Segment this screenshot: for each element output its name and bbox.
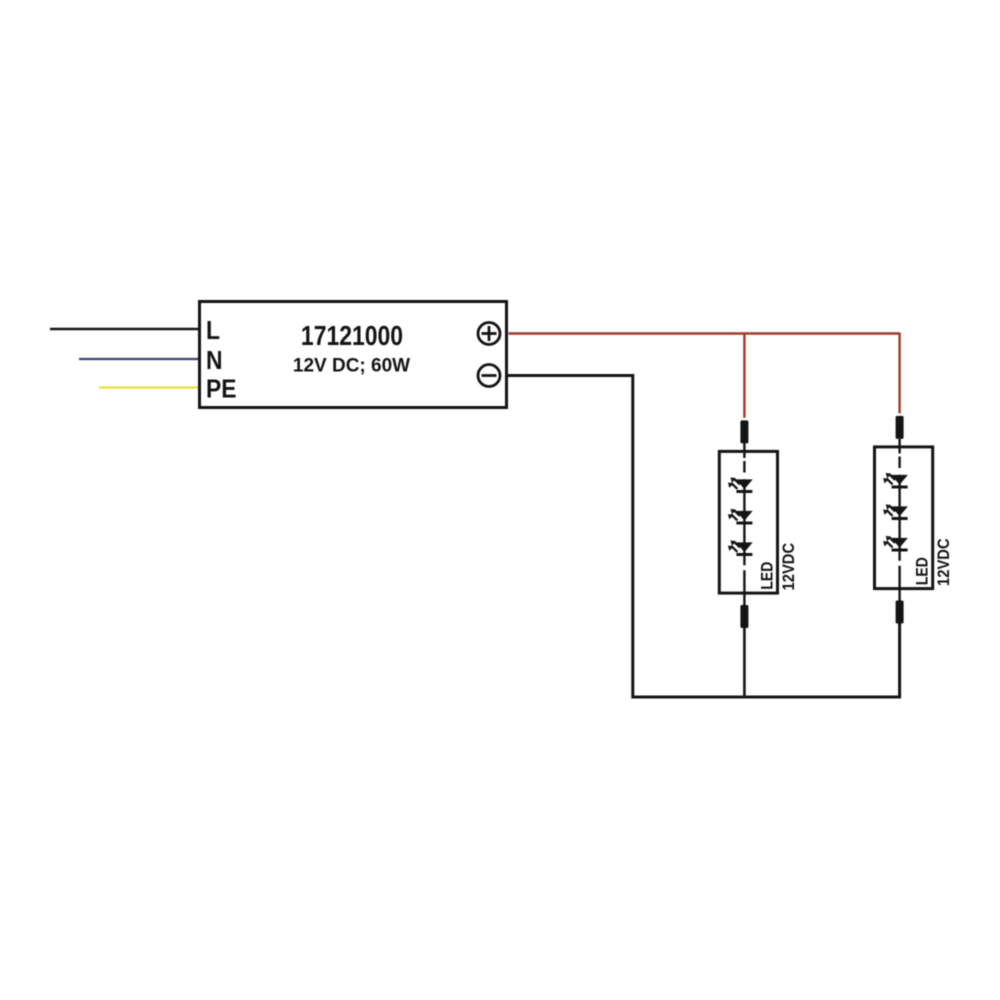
M1 diode D1	[728, 477, 753, 491]
wire - negative rail (box to bottom to module M2)	[508, 376, 900, 699]
value label 12V DC; 60W	[293, 356, 410, 377]
wire L input (black)	[50, 328, 199, 331]
wire N input (blue)	[79, 358, 199, 360]
M2 diode D5	[883, 504, 908, 518]
M1 diode D3	[728, 540, 753, 554]
M1 body rect	[719, 451, 777, 593]
wire red branch down to module M2	[898, 333, 900, 414]
svg-text:12V DC; 60W: 12V DC; 60W	[293, 356, 410, 377]
wire module M1 bottom return	[743, 626, 746, 699]
M2 internal wire with dashes	[898, 439, 900, 601]
terminal + (plus output)	[478, 323, 500, 345]
wire red branch down to module M1	[743, 334, 745, 418]
LED module M2	[875, 416, 954, 624]
svg-text:LED: LED	[913, 557, 932, 585]
value label 17121000	[301, 321, 403, 352]
M2 top connector blob	[896, 416, 904, 439]
svg-text:12VDC: 12VDC	[780, 542, 798, 590]
svg-text:12VDC: 12VDC	[935, 538, 953, 586]
M2 diode D6	[883, 536, 908, 550]
pin label L	[206, 317, 220, 346]
M1 top connector blob	[740, 420, 748, 443]
svg-text:LED: LED	[758, 562, 777, 590]
svg-text:L: L	[206, 317, 220, 346]
M1 internal wire with dashes	[743, 443, 745, 605]
M2 body rect	[875, 447, 933, 589]
pin label PE	[206, 375, 237, 404]
terminal - (minus output)	[478, 365, 500, 387]
LED driver box U1 17121000	[200, 302, 507, 408]
LED module M1	[719, 420, 798, 628]
M2 diode D4	[883, 473, 908, 487]
M1 diode D2	[728, 509, 753, 523]
svg-text:PE: PE	[206, 375, 237, 404]
M2 bottom connector blob	[896, 601, 904, 624]
M1 bottom connector blob	[740, 605, 748, 628]
pin label N	[206, 347, 223, 376]
svg-text:17121000: 17121000	[301, 321, 403, 352]
wire PE input (yellow)	[99, 386, 199, 389]
wire + red horizontal rail	[509, 332, 900, 334]
svg-text:N: N	[206, 347, 223, 376]
